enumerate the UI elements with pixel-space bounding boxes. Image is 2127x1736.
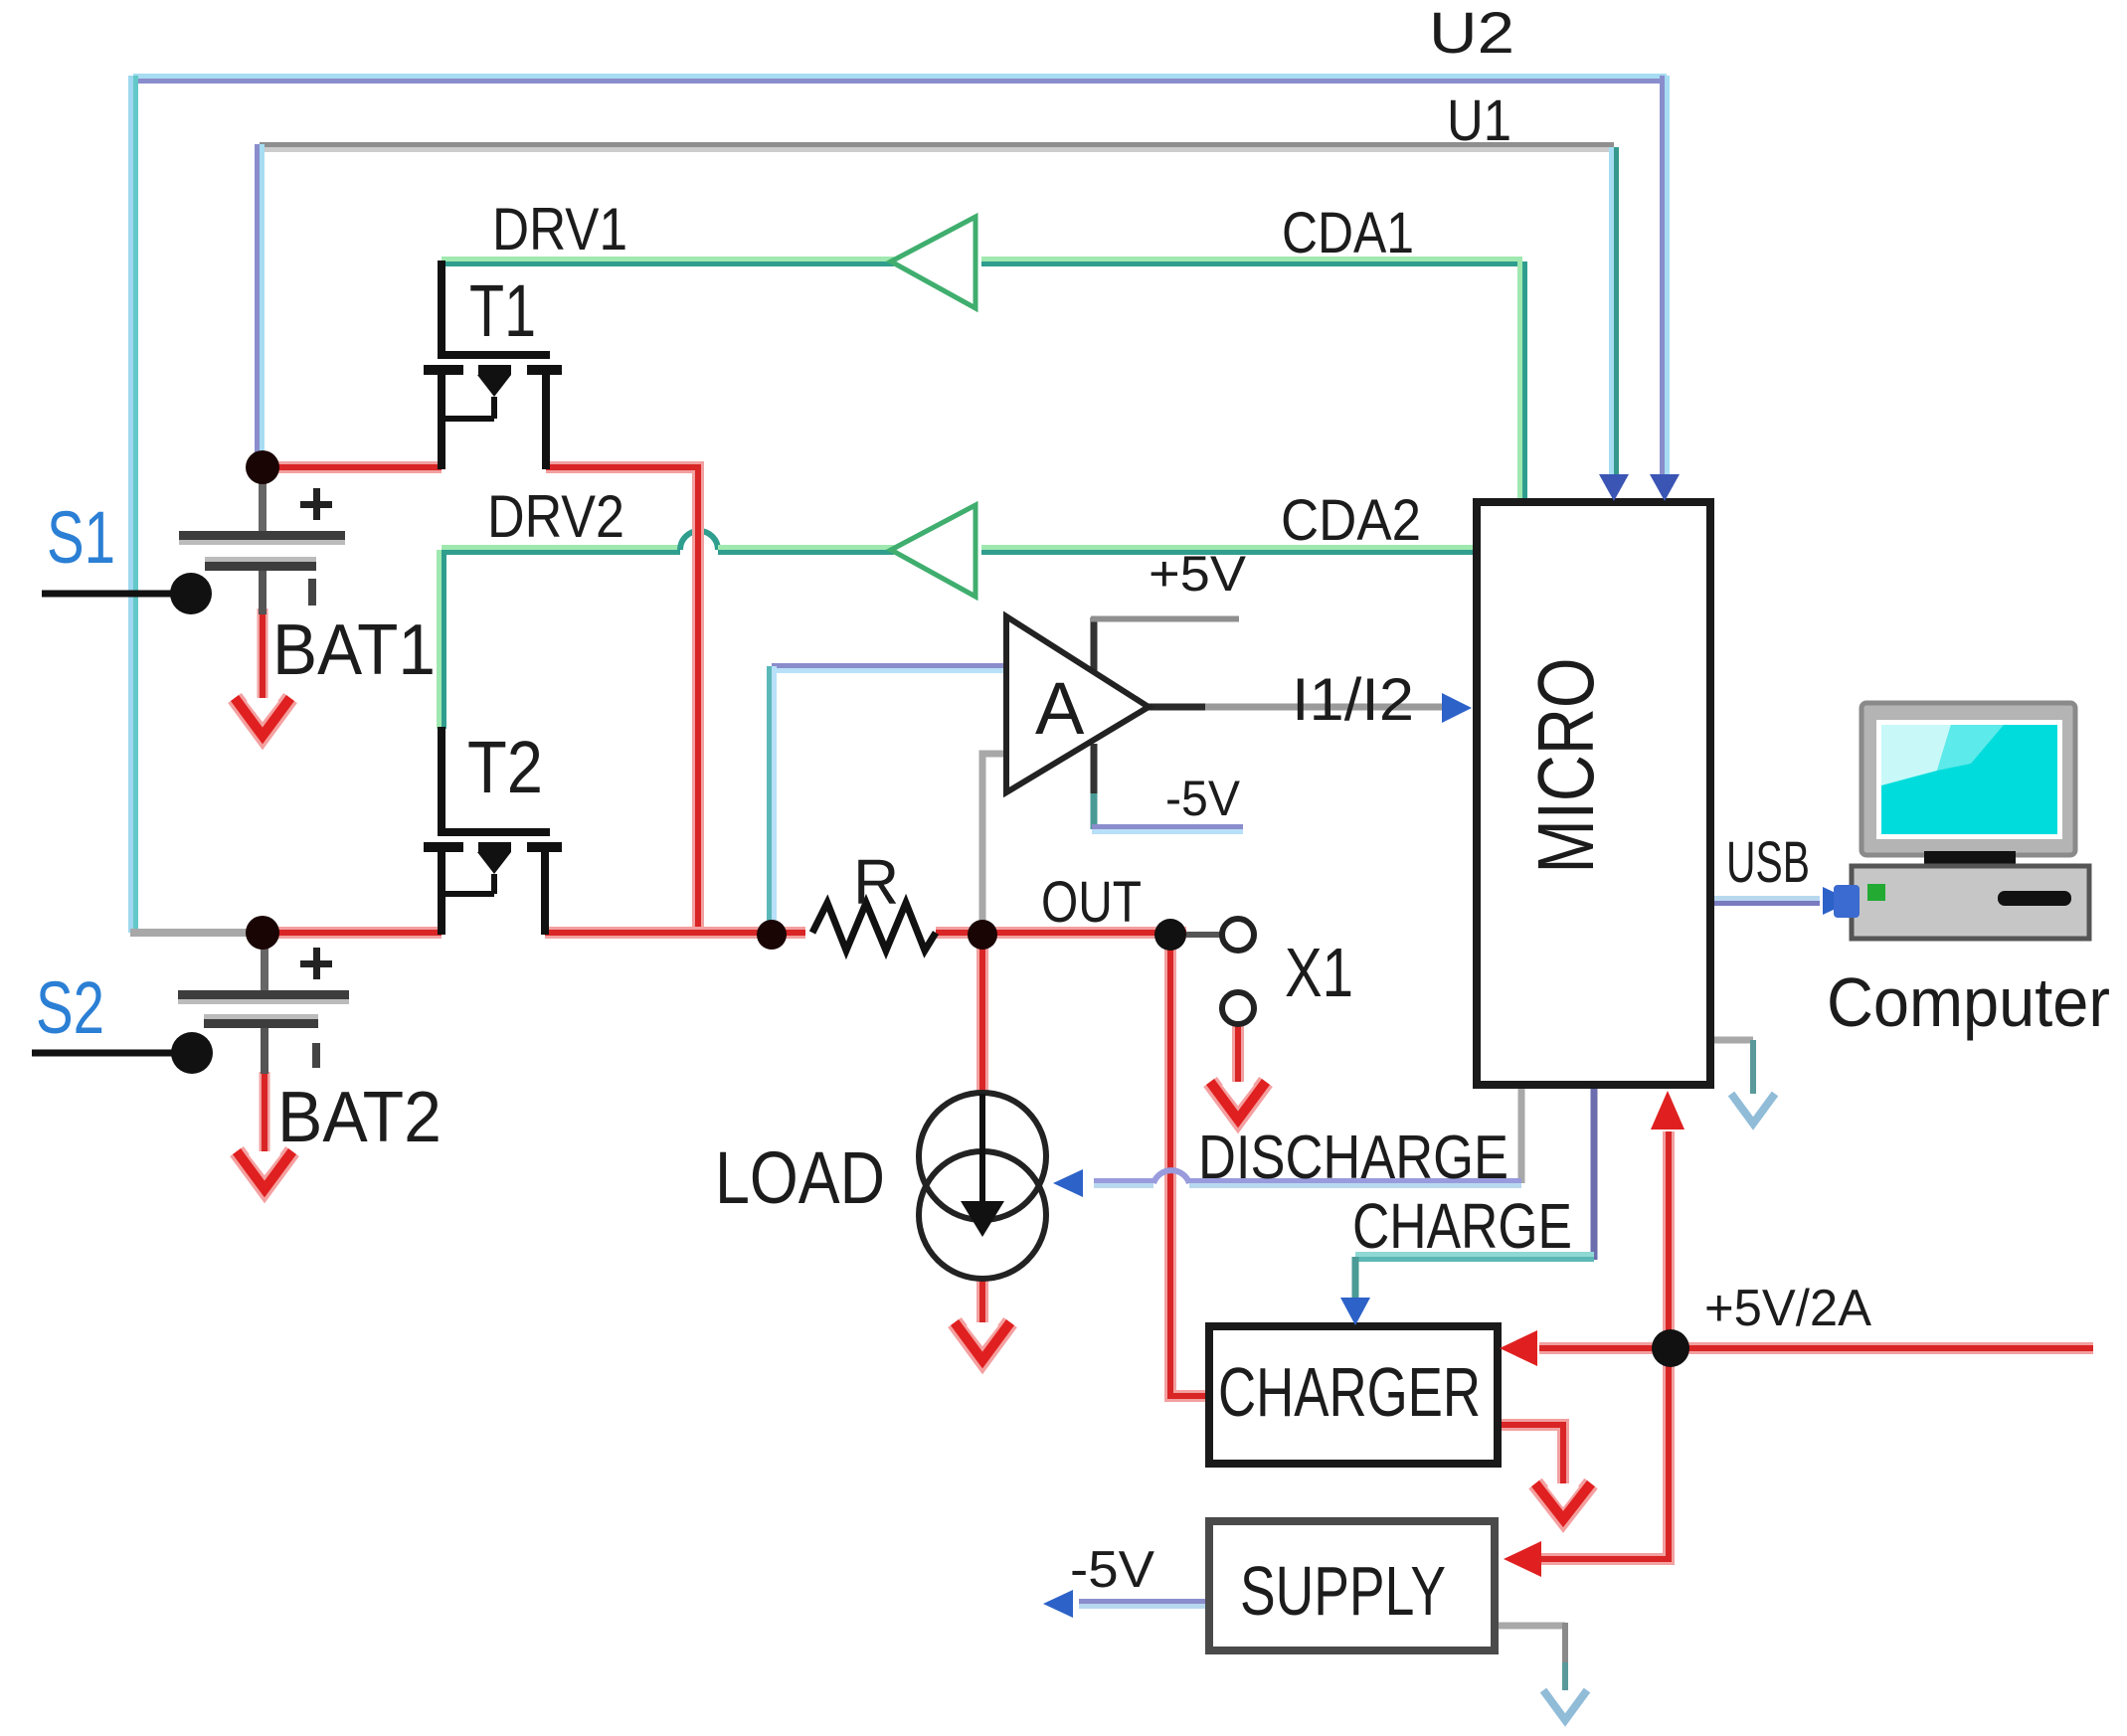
resistor R xyxy=(812,903,936,951)
wire red T1 right to corner and down xyxy=(546,467,698,933)
ground red below X1 xyxy=(1210,1082,1266,1120)
svg-text:A: A xyxy=(1035,667,1085,750)
transistor T2 xyxy=(424,727,562,935)
wire red rail BAT2 node to T2 left xyxy=(263,927,442,939)
svg-text:U1: U1 xyxy=(1447,88,1511,153)
arrow red up into MICRO bottom xyxy=(1651,1091,1684,1129)
ground light blue below MICRO right xyxy=(1731,1094,1775,1124)
wire red LOAD bottom stub to ground xyxy=(976,1279,988,1322)
wire red node down to SUPPLY xyxy=(1541,1348,1669,1559)
arrow red into SUPPLY xyxy=(1504,1541,1541,1577)
wire silver rail bottom-left xyxy=(130,929,263,937)
arrow blue U2 into MICRO xyxy=(1650,474,1680,501)
svg-text:T1: T1 xyxy=(469,269,536,352)
svg-text:Computer: Computer xyxy=(1827,963,2110,1041)
wire OUT node to X1 xyxy=(1186,932,1222,938)
node resistor right junction xyxy=(968,920,997,950)
svg-text:CDA2: CDA2 xyxy=(1281,488,1421,553)
wire op-amp -5V supply pin xyxy=(1092,744,1243,832)
wire SUPPLY right to ground xyxy=(1495,1623,1565,1690)
node +5V/2A junction xyxy=(1652,1329,1689,1367)
svg-text:I1/I2: I1/I2 xyxy=(1292,666,1414,733)
svg-text:BAT1: BAT1 xyxy=(272,610,436,690)
arrow blue U1 into MICRO xyxy=(1599,474,1629,501)
ground red below BAT2 xyxy=(237,1151,292,1189)
wire red node to LOAD top xyxy=(976,933,988,1094)
load current source xyxy=(919,1093,1046,1279)
wire op-amp top input light blue xyxy=(770,666,1007,934)
connector X1 circle 2 xyxy=(1222,992,1254,1024)
wire op-amp +5V supply pin xyxy=(1091,617,1239,674)
wire red up to MICRO bottom xyxy=(1663,1131,1675,1348)
svg-text:DRV1: DRV1 xyxy=(492,196,627,262)
wire CHARGE from MICRO bottom to CHARGER xyxy=(1355,1085,1594,1314)
svg-text:R: R xyxy=(853,846,899,918)
svg-text:USB: USB xyxy=(1726,830,1810,895)
buffer driver DRV2 triangle xyxy=(891,505,975,597)
wire net DRV1 from T1 gate to buffer xyxy=(442,260,894,264)
svg-text:BAT2: BAT2 xyxy=(277,1078,442,1157)
arrow blue DISCHARGE into LOAD xyxy=(1053,1169,1083,1197)
svg-text:CDA1: CDA1 xyxy=(1282,201,1414,265)
svg-text:S2: S2 xyxy=(36,966,104,1049)
computer icon xyxy=(1834,703,2089,939)
wire net U1 horizontal xyxy=(260,145,1614,150)
wire red X1 stub to ground xyxy=(1232,1025,1244,1082)
wire red BAT1 minus stem xyxy=(258,608,268,698)
transistor T1 xyxy=(424,260,562,469)
ground red below CHARGER output xyxy=(1535,1483,1591,1519)
wire red BAT2 minus stem xyxy=(260,1072,270,1151)
wire MICRO right to ground xyxy=(1710,1040,1753,1094)
battery BAT1 xyxy=(179,467,345,614)
svg-text:X1: X1 xyxy=(1285,934,1353,1011)
arrow blue I1/I2 into MICRO xyxy=(1442,693,1472,723)
wire red rail T2 right to resistor xyxy=(545,927,805,939)
svg-text:DRV2: DRV2 xyxy=(487,483,624,550)
wire red +5V/2A rail xyxy=(1539,1342,2093,1354)
CHARGER block xyxy=(1209,1326,1498,1464)
buffer driver DRV1 triangle xyxy=(891,217,975,308)
wire net U2 left vertical rail xyxy=(131,76,136,933)
ground red below BAT1 xyxy=(235,698,290,736)
connector X1 circle 1 xyxy=(1222,919,1254,951)
svg-text:LOAD: LOAD xyxy=(715,1136,885,1219)
svg-text:S1: S1 xyxy=(47,496,115,579)
arrow blue USB into computer xyxy=(1823,887,1853,915)
wire DISCHARGE from MICRO bottom xyxy=(1094,1085,1521,1186)
wire op-amp lower input silver xyxy=(982,754,1006,933)
svg-text:OUT: OUT xyxy=(1041,870,1142,935)
ground light blue below SUPPLY xyxy=(1543,1690,1587,1720)
battery BAT2 xyxy=(178,933,349,1074)
svg-text:CHARGER: CHARGER xyxy=(1218,1353,1481,1431)
switch probe S1 xyxy=(42,573,212,614)
wire T2 gate green vertical xyxy=(440,550,444,729)
wire net U1 vertical into MICRO xyxy=(1612,147,1617,476)
svg-text:MICRO: MICRO xyxy=(1521,658,1610,874)
wire -5V from SUPPLY xyxy=(1079,1602,1209,1607)
wire I1/I2 from op-amp to MICRO xyxy=(1148,704,1442,711)
wire red CHARGER output to ground xyxy=(1498,1425,1563,1483)
wire red OUT down to CHARGER xyxy=(1170,933,1209,1396)
svg-text:-5V: -5V xyxy=(1165,771,1241,826)
svg-text:+5V: +5V xyxy=(1149,546,1247,602)
svg-text:T2: T2 xyxy=(467,726,543,808)
SUPPLY block xyxy=(1209,1521,1495,1650)
MICRO block xyxy=(1477,502,1710,1085)
wire USB from MICRO to computer xyxy=(1710,899,1820,904)
node BAT1 plus junction xyxy=(246,450,279,484)
node BAT2 rail junction xyxy=(246,916,279,950)
switch probe S2 xyxy=(32,1032,213,1074)
wire net CDA1 from buffer to MICRO xyxy=(981,260,1525,503)
svg-text:CHARGE: CHARGE xyxy=(1352,1190,1572,1262)
wire net U2 vertical into MICRO xyxy=(1663,76,1668,476)
svg-text:-5V: -5V xyxy=(1070,1541,1154,1599)
arrow blue CHARGE into CHARGER xyxy=(1340,1298,1370,1325)
svg-text:SUPPLY: SUPPLY xyxy=(1240,1552,1446,1630)
node OUT junction xyxy=(1154,919,1186,951)
wire red BAT1 node to T1 left xyxy=(263,461,442,473)
wire net CDA2 from buffer to MICRO xyxy=(981,548,1477,553)
op-amp A xyxy=(1006,616,1149,792)
node resistor left junction xyxy=(757,920,787,950)
svg-text:+5V/2A: +5V/2A xyxy=(1704,1280,1871,1337)
arrow blue -5V output xyxy=(1043,1590,1073,1618)
wire net DRV2 from T2 gate to buffer with hop xyxy=(442,531,894,553)
ground red below LOAD xyxy=(955,1322,1010,1360)
svg-text:DISCHARGE: DISCHARGE xyxy=(1198,1124,1508,1192)
arrow red +5V into CHARGER xyxy=(1500,1330,1537,1366)
wire net U2 horizontal top xyxy=(133,77,1667,82)
svg-text:U2: U2 xyxy=(1429,1,1514,66)
wire red rail resistor to OUT node xyxy=(936,927,1186,939)
wire net U1 vertical to BAT1 plus node xyxy=(258,144,263,467)
